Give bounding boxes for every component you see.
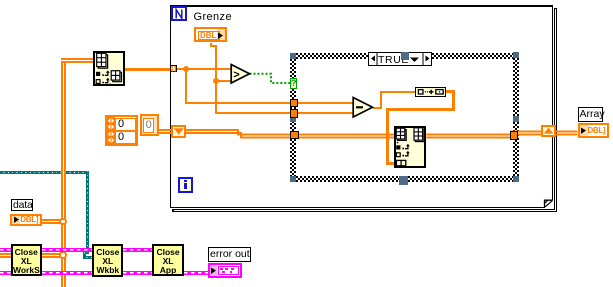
case handle bottom-left xyxy=(290,176,296,182)
for loop shadow lines xyxy=(554,8,557,212)
2D array wire: from data terminal xyxy=(42,219,64,224)
data [DBL] control terminal xyxy=(10,214,42,227)
case left tunnel 2 xyxy=(290,109,298,117)
2D array constant (index display) xyxy=(105,115,138,146)
teal path wire horizontal xyxy=(0,171,89,174)
wire: dot2 down and right to case tunnel 2 / subtract xyxy=(215,80,217,114)
wire error edge to WorkS bottom xyxy=(0,271,11,275)
wire refnum WorkS to Wkbk top xyxy=(42,248,93,252)
case handle top-left xyxy=(290,53,296,59)
shift register left (down arrow) xyxy=(171,125,187,138)
Index Array output thick wire xyxy=(125,68,170,71)
junction ring WorkS xyxy=(59,251,67,259)
case right tunnel xyxy=(510,131,518,140)
scalar wire: [] tunnel to greater node xyxy=(177,68,231,70)
data label xyxy=(11,199,33,212)
wire: subtract output up to build array xyxy=(373,107,382,109)
junction dot 1 xyxy=(183,66,189,72)
case structure right border xyxy=(513,52,519,182)
case handle top-right xyxy=(513,52,519,58)
wire refnum edge to WorkS top xyxy=(0,248,11,252)
error out label xyxy=(208,247,251,263)
case handle bottom-middle xyxy=(399,176,408,186)
for loop border xyxy=(170,5,172,208)
case handle bottom-right xyxy=(513,176,519,182)
Close XL Wkbk node xyxy=(92,244,123,277)
2D array constant (empty element) xyxy=(140,114,159,136)
case handle mid-left xyxy=(290,116,296,123)
shift register right (up arrow) xyxy=(541,125,556,137)
svg-text:>: > xyxy=(233,69,239,81)
Grenze DBL control terminal xyxy=(194,27,227,42)
green boolean dotted wire xyxy=(245,60,295,90)
junction dot 2 xyxy=(213,78,219,84)
Close XL WorkS node xyxy=(11,244,42,276)
wire: dot2 right to greater node xyxy=(216,80,231,82)
Grenze label xyxy=(194,11,232,23)
for loop N terminal xyxy=(171,6,187,22)
wire: dot1 down and right to case tunnel 1 / subtract xyxy=(185,69,187,104)
wire error WorkS to Wkbk bottom xyxy=(42,271,93,275)
case structure top border xyxy=(290,53,519,59)
Index Array node xyxy=(93,51,125,86)
subtract node xyxy=(351,95,375,120)
case structure left border xyxy=(290,53,296,183)
case left tunnel 1 xyxy=(290,99,298,108)
case left tunnel 3 (2D array) xyxy=(290,131,299,140)
build array node xyxy=(415,87,446,97)
wire: Grenze DBL down xyxy=(210,43,212,47)
case structure bottom border xyxy=(290,176,519,182)
2D array wire: left of Close XL WorkS xyxy=(0,253,11,258)
junction ring data xyxy=(59,218,67,226)
teal path wire vertical xyxy=(86,171,89,254)
case selector label xyxy=(368,52,432,65)
case handle mid-right xyxy=(513,116,519,123)
error out cluster terminal xyxy=(208,263,243,278)
auto-index tunnel [] xyxy=(170,65,177,72)
case top-middle handle (over label) xyxy=(401,52,409,60)
2D array wire: vertical main xyxy=(61,58,66,287)
2D array wire: into Index Array xyxy=(61,58,94,63)
teal path wire jog xyxy=(83,252,86,257)
thick 1D wire: build array out, down, left, down into replace node xyxy=(446,90,455,93)
for loop grow dog-ear corner xyxy=(540,195,556,211)
case selector ? terminal xyxy=(290,78,297,90)
wire error App to error out xyxy=(184,271,208,275)
Array label xyxy=(578,107,604,122)
Array [DBL] indicator terminal xyxy=(578,123,609,138)
greater-than comparison node xyxy=(229,62,252,86)
for loop i terminal xyxy=(178,177,194,193)
2D array wire: right of Close XL WorkS xyxy=(42,253,64,258)
replace array subset node xyxy=(394,126,426,168)
wire error Wkbk to App bottom xyxy=(123,271,152,275)
wire refnum Wkbk to App top xyxy=(123,248,152,252)
Close XL App node xyxy=(152,244,184,276)
